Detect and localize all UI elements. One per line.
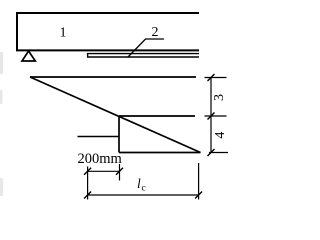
svg-text:1: 1: [60, 26, 67, 41]
svg-text:4: 4: [213, 132, 228, 139]
svg-text:2: 2: [152, 25, 159, 40]
tick bottom: [208, 149, 215, 156]
short left line: [78, 136, 120, 138]
tick lc right: [195, 192, 202, 199]
left extension vertical (shared): [87, 167, 89, 200]
leader line for 2: [128, 39, 164, 57]
lc dimension line: [88, 194, 199, 196]
200mm right extension vertical: [119, 164, 121, 181]
sloping line: [30, 77, 201, 153]
extension middle: [205, 115, 227, 117]
beam outline (element 1): [17, 13, 199, 50]
scan smudge left edge: [0, 52, 3, 196]
diagram bottom line: [119, 152, 201, 154]
svg-text:3: 3: [212, 94, 227, 101]
extension top: [205, 77, 227, 79]
lc right extension vertical: [198, 163, 200, 200]
tick 200mm right: [116, 168, 123, 175]
diagram top line: [30, 76, 196, 78]
step vertical: [118, 116, 120, 153]
svg-text:200mm: 200mm: [78, 151, 123, 167]
200mm dimension line: [88, 170, 120, 172]
extension bottom: [209, 152, 228, 154]
support triangle: [22, 51, 35, 61]
svg-text:c: c: [142, 184, 146, 194]
tick middle: [208, 113, 215, 120]
tick 200mm left: [84, 168, 91, 175]
tick top: [208, 74, 215, 81]
tick lc left: [84, 192, 91, 199]
plate (element 2): [88, 54, 199, 57]
step top line: [119, 115, 195, 117]
right dimension line: [210, 78, 212, 153]
svg-text:l: l: [137, 176, 141, 191]
